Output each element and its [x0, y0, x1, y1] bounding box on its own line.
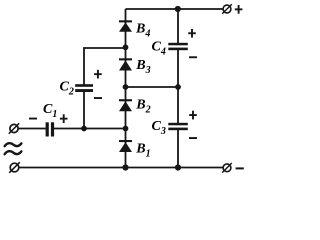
capacitor C1 plates [46, 122, 55, 136]
wire C2 bottom link [83, 92, 85, 129]
wire diode chain vertical [125, 9, 127, 168]
svg-text:C4: C4 [152, 40, 166, 58]
label C4 minus [189, 56, 197, 58]
svg-text:C1: C1 [43, 102, 57, 120]
label output plus [235, 5, 243, 14]
label C4 plus [188, 29, 196, 38]
label C1 minus [29, 118, 37, 120]
svg-text:B4: B4 [135, 22, 150, 40]
svg-text:B1: B1 [135, 142, 150, 160]
wire top rail [126, 8, 224, 10]
diode B4 [119, 20, 132, 31]
terminal input bottom (AC) [9, 162, 20, 173]
wire bottom rail [19, 167, 223, 169]
capacitor C4 plates [168, 43, 188, 50]
terminal input top (AC) [9, 123, 19, 133]
junction C4/C3 node [175, 84, 181, 90]
wire C4 branch vertical [177, 9, 179, 87]
junction top rail C4 node [175, 6, 181, 12]
label C3 plus [189, 111, 197, 120]
label C2 plus [94, 70, 102, 79]
svg-text:B2: B2 [135, 98, 150, 116]
svg-text:C2: C2 [60, 80, 74, 98]
wire C2 top link [84, 48, 126, 85]
diode B3 [119, 58, 132, 70]
capacitor C3 plates [168, 123, 188, 130]
junction chain bottom node [122, 164, 128, 170]
terminal output minus [222, 163, 232, 173]
svg-text:C3: C3 [152, 119, 166, 137]
svg-text:B3: B3 [135, 58, 150, 76]
terminal output plus [222, 4, 232, 14]
capacitor C2 plates [75, 84, 93, 92]
label C3 minus [189, 137, 197, 139]
label AC approx symbol [5, 143, 22, 154]
junction C2-to-chain node [123, 44, 129, 50]
junction B3/B2 node [123, 84, 129, 90]
wire C3 branch vertical [177, 87, 179, 168]
junction B2/B1 input node [123, 126, 129, 132]
label C2 minus [94, 97, 102, 99]
junction bottom rail C3 node [175, 164, 181, 170]
label C1 plus [60, 114, 68, 123]
junction C2 bottom node [81, 126, 87, 132]
wire middle rail (input to B1/B2 node) [18, 128, 125, 130]
wire B3/B2 node to C4 bottom [126, 86, 179, 88]
diode B2 [119, 99, 132, 111]
label output minus [236, 167, 244, 169]
diode B1 [119, 140, 132, 152]
